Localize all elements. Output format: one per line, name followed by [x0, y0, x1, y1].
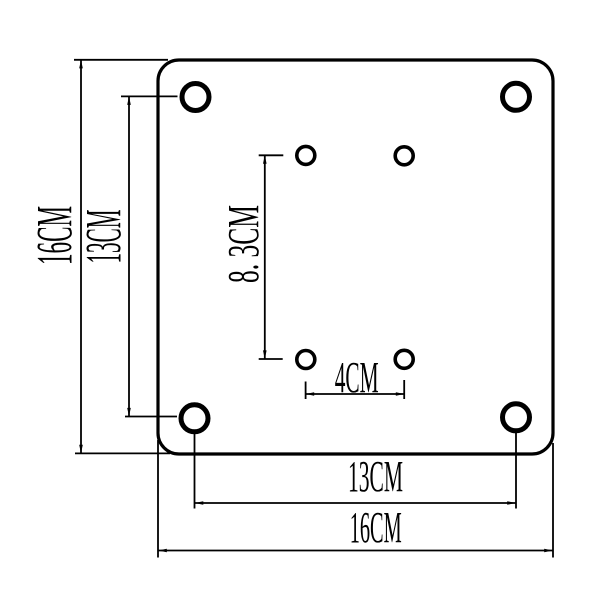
- dimension 13CM bottom: extension line right: [515, 433, 517, 509]
- dimension 16CM bottom: extension line left: [157, 440, 159, 558]
- dimension 8.3CM: extension line bottom: [259, 358, 283, 360]
- small hole bottom-left: [297, 351, 315, 369]
- dimension 4CM: arrowhead right: [396, 392, 405, 396]
- svg-text:4CM: 4CM: [335, 353, 379, 402]
- dimension 4CM: extension tick left: [305, 382, 307, 400]
- dimension 16CM bottom: arrowhead right: [544, 549, 553, 553]
- small hole top-right: [395, 147, 413, 165]
- dimension 16CM left: dimension line: [80, 60, 82, 453]
- dimension 16CM left: extension line bottom: [75, 452, 170, 454]
- dimension 13CM left: dimension line: [128, 97, 130, 417]
- dimension 13CM bottom: arrowhead right: [507, 501, 516, 505]
- dimension 13CM left: extension line bottom: [125, 416, 177, 418]
- dimension 4CM: arrowhead left: [306, 392, 315, 396]
- dimension 13CM left: arrowhead down: [127, 408, 131, 417]
- dimension 13CM bottom: extension line left: [194, 434, 196, 509]
- dimension 13CM left: extension line top: [121, 95, 178, 97]
- plate outline: [158, 60, 553, 454]
- dimension 13CM bottom: dimension line: [195, 502, 517, 504]
- dimension 16CM left: arrowhead up: [79, 60, 83, 69]
- dimension 16CM left: extension line top: [74, 59, 168, 61]
- dimension 8.3CM: dimension line: [264, 155, 266, 359]
- dimension 16CM bottom: extension line right: [552, 443, 554, 558]
- svg-text:8. 3CM: 8. 3CM: [219, 205, 268, 283]
- corner hole top-right: [503, 83, 530, 110]
- corner hole bottom-left: [181, 405, 208, 432]
- corner hole top-left: [182, 84, 209, 111]
- dimension 8.3CM: arrowhead up: [263, 155, 267, 164]
- dimension 16CM bottom: dimension line: [158, 550, 553, 552]
- svg-text:13CM: 13CM: [76, 210, 132, 264]
- svg-text:16CM: 16CM: [350, 503, 402, 552]
- small hole top-left: [297, 146, 315, 164]
- svg-text:13CM: 13CM: [348, 452, 403, 501]
- dimension 16CM bottom: arrowhead left: [158, 549, 167, 553]
- dimension 13CM bottom: arrowhead left: [195, 501, 204, 505]
- dimension 4CM: extension tick right: [403, 380, 405, 399]
- dimension 8.3CM: arrowhead down: [263, 350, 267, 359]
- dimension 16CM left: arrowhead down: [79, 445, 83, 454]
- dimension 8.3CM: extension line top: [259, 154, 284, 156]
- dimension 4CM: dimension line: [306, 393, 404, 395]
- small hole bottom-right: [395, 350, 413, 368]
- dimension 13CM left: arrowhead up: [127, 96, 131, 105]
- corner hole bottom-right: [503, 404, 530, 431]
